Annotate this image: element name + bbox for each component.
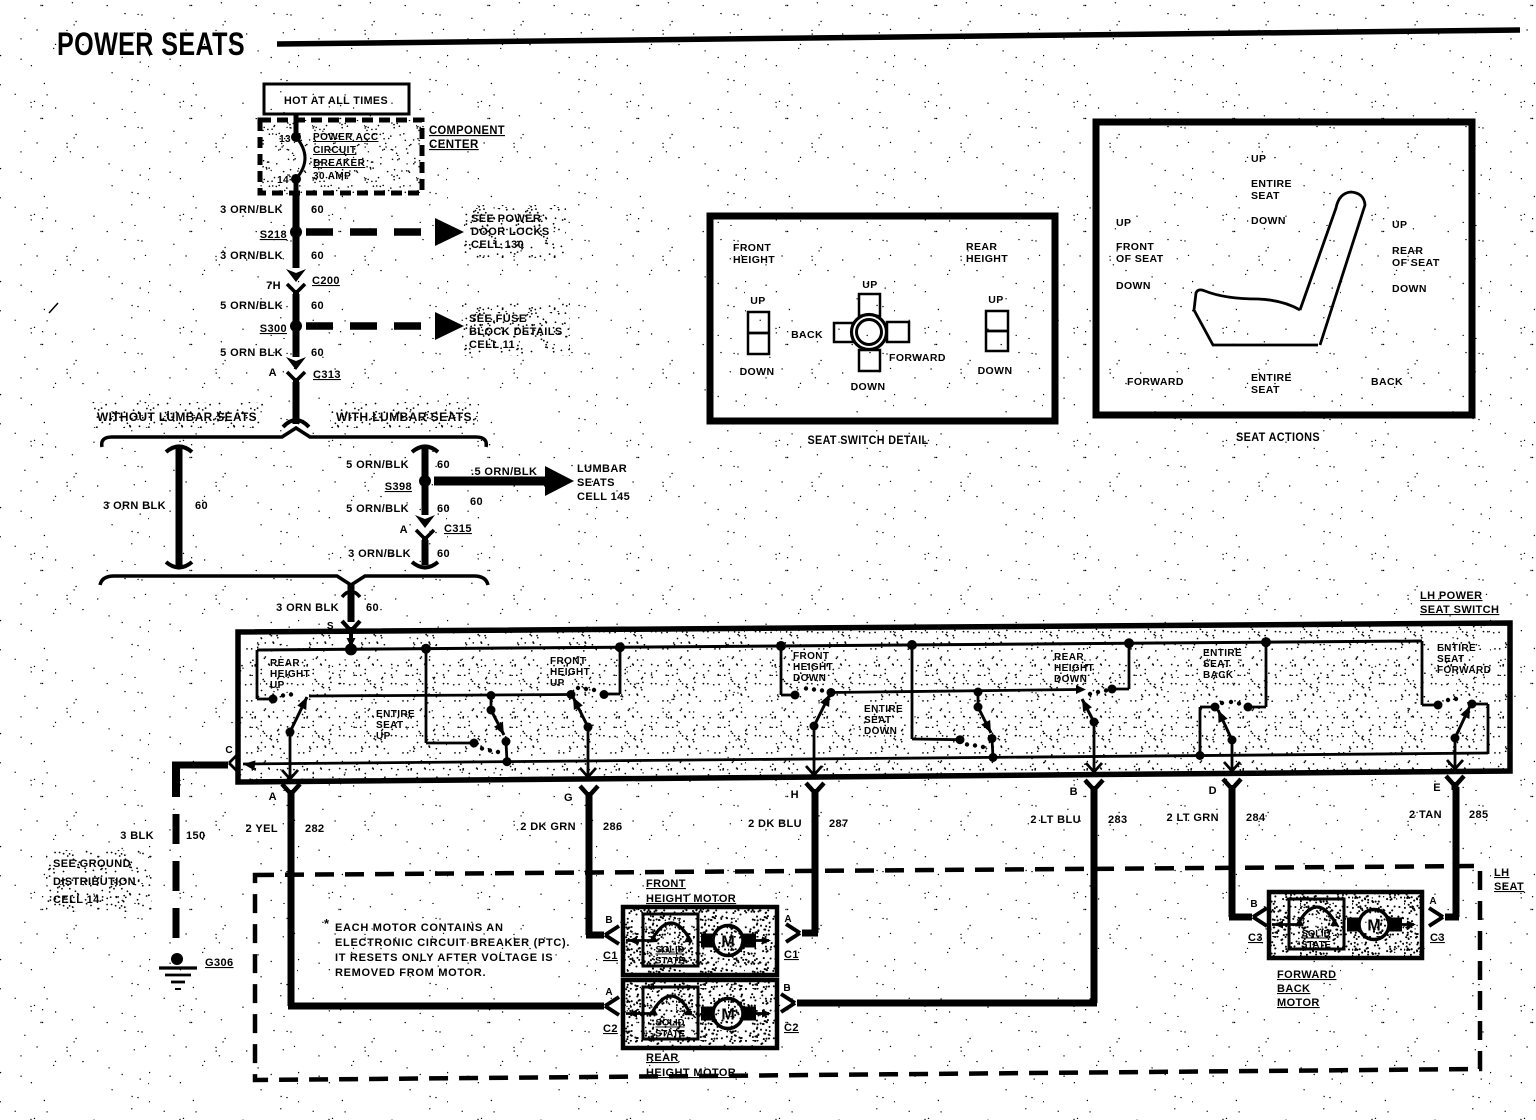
wire 2 TAN 285 (pin E to forward back motor A): [1445, 787, 1459, 917]
switch FRONT HEIGHT UP (pin G): [550, 642, 625, 778]
ground G306: [159, 953, 234, 989]
label REAR HEIGHT MOTOR: [646, 1052, 736, 1079]
rear height toggle: [978, 294, 1013, 377]
pin E connector and wire 2 TAN 285: [1409, 776, 1489, 821]
front height toggle: [740, 295, 775, 378]
power source box HOT AT ALL TIMES: [264, 84, 409, 114]
label FORWARD BACK MOTOR: [1277, 969, 1336, 1009]
labels front/rear height: [733, 241, 1008, 266]
connector C313 pin A: [269, 357, 341, 385]
caption SEAT SWITCH DETAIL: [808, 433, 929, 447]
bus third (down-switch row): [831, 685, 1086, 694]
splice S300: [260, 320, 302, 335]
switch ENTIRE SEAT UP: [376, 644, 512, 767]
seat switch detail box: [710, 216, 1055, 421]
note SEE FUSE BLOCK DETAILS CELL 11: [462, 303, 570, 356]
pin G connector and wire 2 DK GRN 286: [520, 786, 622, 833]
wire 5 ORN/BLK 60 (with lumbar, to S398): [346, 447, 450, 482]
connector C315 pin A: [400, 515, 472, 543]
label LH SEAT: [1494, 867, 1524, 893]
pin B connector and wire 2 LT BLU 283: [1030, 780, 1127, 826]
branch bracket top: [102, 428, 487, 447]
pin C to ground wire: [172, 745, 237, 771]
wire 2 YEL 282 (pin A to rear height motor): [288, 795, 604, 1006]
wire 5 ORN/BLK 60 (C200 to S300): [220, 294, 324, 326]
note LUMBAR SEATS CELL 145: [577, 463, 630, 503]
label FRONT HEIGHT MOTOR: [646, 878, 736, 905]
circuit breaker POWER ACC 30 AMP: [277, 114, 378, 196]
switch housing box: [238, 623, 1510, 782]
wire 2 DK GRN 286 (pin G to front height motor): [586, 797, 604, 935]
branch bracket bottom: [100, 576, 488, 585]
forward back motor M: [1269, 892, 1422, 958]
pin H connector and wire 2 DK BLU 287: [748, 783, 849, 830]
splice S398: [385, 475, 431, 493]
pin D connector and wire 2 LT GRN 284: [1167, 779, 1267, 824]
pin A connector and wire 2 YEL 282: [246, 784, 325, 835]
dashed arrow to power door locks: [306, 218, 464, 246]
seat actions box: [1096, 122, 1472, 415]
stray mark: [49, 303, 58, 313]
wire 2 DK BLU 287 (pin H to front height motor A): [802, 794, 818, 933]
wire 5 ORN/BLK 60 (S300 to C313): [220, 326, 324, 359]
title rule line: [277, 30, 1520, 44]
LH POWER SEAT SWITCH label: [1420, 590, 1499, 616]
seat profile drawing: [1194, 192, 1365, 345]
note each motor contains PTC: [324, 916, 570, 979]
note SEE POWER DOOR LOCKS CELL 130: [464, 205, 566, 258]
splice S218: [260, 226, 302, 241]
switch ENTIRE SEAT FORWARD (pin E): [1422, 641, 1491, 770]
caption SEAT ACTIONS: [1236, 430, 1320, 444]
wire 3 ORN/BLK circuit 60 (breaker to S218): [220, 193, 324, 232]
wire 2 LT GRN 284 (pin D to forward back motor B): [1229, 790, 1252, 917]
switch REAR HEIGHT UP: [257, 650, 310, 780]
option label WITH LUMBAR SEATS: [330, 402, 478, 428]
joystick labels: [791, 279, 946, 393]
connector C200 pin 7H: [266, 269, 340, 297]
joystick knob: [834, 294, 909, 371]
wire 3 ORN BLK 60 to switch pin S: [276, 585, 379, 650]
feed bus (top): [257, 631, 1422, 655]
wire 2 LT BLU 283 (pin B to rear height motor B): [797, 791, 1097, 1003]
wire 5 ORN/BLK 60 (S398 to C315): [346, 481, 450, 515]
front height motor M: [623, 907, 777, 975]
seat actions labels: [1116, 153, 1440, 396]
bus second (up-switch row): [309, 695, 571, 697]
switch ENTIRE SEAT BACK (pin D): [1196, 637, 1272, 772]
wire to branch: [283, 382, 309, 427]
switch FRONT HEIGHT DOWN (pin H): [776, 641, 836, 776]
front height motor connector C1 pins B/A: [603, 914, 800, 962]
switch ENTIRE SEAT DOWN: [864, 640, 998, 762]
LH SEAT dashed outline: [255, 866, 1480, 1080]
rear height motor M: [623, 980, 777, 1048]
component center dashed box: [260, 120, 422, 193]
wire 3 BLK 150 to ground: [120, 762, 205, 952]
forward back motor connector C3 pins B/A: [1248, 896, 1445, 944]
title POWER SEATS: [57, 26, 245, 62]
note SEE GROUND DISTRIBUTION CELL 14: [46, 850, 152, 912]
label COMPONENT CENTER: [429, 125, 505, 151]
arrow to lumbar seats: [434, 466, 574, 508]
dashed arrow to fuse block: [306, 312, 464, 340]
switch REAR HEIGHT DOWN (pin B): [1054, 638, 1134, 773]
bus bottom (common to pin C): [243, 753, 1488, 770]
wire 3 ORN BLK 60 (without lumbar branch): [103, 447, 208, 569]
wire 3 ORN/BLK 60 (S218 to C200): [220, 232, 324, 268]
option label WITHOUT LUMBAR SEATS: [92, 402, 264, 428]
rear height motor connector C2 pins A/B: [603, 983, 799, 1035]
wire 3 ORN/BLK 60 (C315 down): [348, 540, 450, 568]
